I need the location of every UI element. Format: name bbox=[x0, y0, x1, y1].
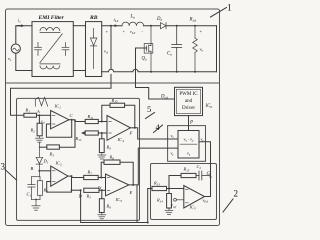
svg-text:Lb: Lb bbox=[130, 15, 136, 20]
svg-text:EMI Filter: EMI Filter bbox=[38, 15, 65, 21]
svg-text:R10: R10 bbox=[111, 98, 118, 104]
svg-text:PWM IC: PWM IC bbox=[179, 92, 198, 97]
svg-text:+: + bbox=[200, 29, 203, 34]
node C bbox=[71, 119, 73, 121]
wire C to R11 bbox=[69, 120, 85, 122]
EMI diagonal bbox=[40, 34, 63, 63]
inductor Lb bbox=[122, 22, 144, 26]
node F bbox=[134, 127, 136, 129]
svg-text:3: 3 bbox=[1, 162, 6, 172]
multiplier input wire vz bbox=[129, 148, 178, 185]
svg-text:IC6: IC6 bbox=[205, 104, 213, 109]
wire RB out / node vd bbox=[102, 25, 122, 27]
wire Db to output bbox=[166, 25, 217, 27]
callout 2 bbox=[223, 199, 233, 212]
wire IC2 out to R7 bbox=[68, 176, 84, 177]
multiplier output wire vy bbox=[199, 142, 211, 177]
svg-text:+: + bbox=[106, 29, 109, 34]
svg-text:G: G bbox=[207, 172, 211, 177]
svg-text:F: F bbox=[129, 131, 133, 136]
wire EMI to RB bottom bbox=[73, 70, 85, 72]
multiplier input wire vx bbox=[135, 128, 178, 139]
svg-text:R7: R7 bbox=[87, 170, 93, 176]
svg-text:1: 1 bbox=[227, 4, 232, 14]
svg-text:Db: Db bbox=[156, 17, 162, 22]
wire source bottom bbox=[16, 53, 32, 70]
node B bbox=[38, 170, 40, 172]
multiplier box bbox=[168, 126, 206, 162]
error amp IC5 bbox=[184, 186, 205, 209]
bottom rail bbox=[102, 69, 217, 72]
capacitor C1 parallel resistor R4 bbox=[28, 171, 43, 210]
svg-text:D1: D1 bbox=[43, 159, 49, 165]
resistor R10 feedback bbox=[102, 105, 110, 121]
resistor R14 bbox=[165, 189, 173, 215]
svg-text:R2: R2 bbox=[30, 128, 36, 134]
op-amp IC1 bbox=[51, 111, 69, 129]
diode D1 bbox=[36, 147, 42, 171]
box 2 error amp border bbox=[151, 164, 217, 220]
resistor R6 bbox=[98, 190, 106, 219]
resistor R2 bbox=[38, 115, 40, 123]
Vref terminal bbox=[174, 198, 177, 201]
wire Lb to Db bbox=[144, 25, 160, 27]
svg-text:Driver: Driver bbox=[182, 106, 195, 111]
wire EMI to RB top bbox=[73, 25, 85, 27]
svg-text:2: 2 bbox=[234, 189, 239, 199]
op-amp IC3 bbox=[106, 174, 129, 196]
svg-text:R15: R15 bbox=[183, 167, 190, 173]
RB diode bbox=[90, 29, 96, 69]
svg-text:R6: R6 bbox=[106, 204, 112, 210]
outer system box 1 bbox=[6, 9, 220, 226]
output right rail bbox=[216, 26, 218, 72]
op-amp IC4 bbox=[107, 116, 130, 141]
svg-text:R9: R9 bbox=[106, 145, 112, 151]
callout 3 bbox=[5, 170, 17, 181]
wire source top bbox=[16, 26, 32, 44]
svg-text:R8: R8 bbox=[109, 155, 115, 161]
svg-text:R12: R12 bbox=[75, 136, 82, 142]
svg-text:RB: RB bbox=[89, 15, 98, 21]
svg-text:A: A bbox=[36, 109, 40, 114]
EMI top inductor bbox=[40, 27, 60, 30]
ground below R2 bbox=[35, 136, 43, 147]
svg-text:P: P bbox=[189, 121, 193, 126]
current arrow i_Lb bbox=[115, 24, 118, 27]
EMI filter box bbox=[32, 22, 73, 77]
callout 5 bbox=[146, 113, 155, 119]
transistor Qb bbox=[144, 26, 153, 72]
node A bbox=[38, 114, 40, 116]
resistor R_Ld load zigzag bbox=[193, 26, 198, 72]
resistor R3 bbox=[47, 145, 60, 149]
power stage bottom border bbox=[6, 82, 220, 84]
svg-text:E: E bbox=[129, 190, 133, 195]
EMI left capacitor bbox=[35, 43, 42, 56]
EMI right capacitor bbox=[62, 43, 69, 56]
IC2 feedback wire bbox=[47, 176, 72, 192]
P wire bbox=[188, 116, 190, 131]
svg-text:R14: R14 bbox=[156, 198, 163, 204]
svg-text:Co: Co bbox=[167, 52, 172, 57]
gate wire Dr,b bbox=[136, 48, 175, 99]
node G bbox=[210, 176, 212, 178]
vd sense wire bbox=[110, 26, 112, 69]
rectifier RB box bbox=[86, 22, 102, 77]
compensation R15 bbox=[169, 176, 181, 189]
resistor R5 bbox=[84, 188, 99, 192]
callout 1 bbox=[211, 8, 227, 18]
svg-text:vLb: vLb bbox=[130, 29, 136, 35]
EMI bottom inductor bbox=[40, 66, 60, 69]
capacitor Co bbox=[172, 26, 182, 72]
resistor R7 bbox=[84, 175, 99, 179]
svg-text:RLd: RLd bbox=[189, 18, 197, 23]
svg-text:C1: C1 bbox=[27, 192, 32, 198]
sawtooth icon bbox=[35, 97, 47, 106]
svg-text:R4: R4 bbox=[43, 188, 49, 194]
op-amp IC2 bbox=[51, 166, 68, 186]
svg-text:C2: C2 bbox=[197, 164, 202, 170]
svg-text:B: B bbox=[31, 166, 34, 171]
svg-text:R5: R5 bbox=[86, 194, 92, 200]
PWM IC and driver box IC6 bbox=[175, 87, 203, 115]
resistor R11 bbox=[85, 119, 98, 123]
resistor R13 bbox=[152, 186, 167, 190]
IC1 feedback wire bbox=[46, 120, 71, 138]
error amp output wire bbox=[205, 176, 211, 197]
node D wire bbox=[72, 189, 81, 191]
callout 4 bbox=[154, 125, 163, 133]
ac source Vs bbox=[11, 44, 20, 53]
svg-text:and: and bbox=[185, 99, 193, 104]
box 3 control border bbox=[17, 98, 140, 220]
svg-text:Qb: Qb bbox=[142, 57, 147, 62]
wire D down to bottom bbox=[81, 189, 152, 223]
wire B to IC2 bbox=[39, 170, 50, 172]
svg-text:R11: R11 bbox=[87, 114, 94, 120]
resistor R12 with arrow bbox=[81, 131, 85, 135]
resistor R1 bbox=[24, 113, 37, 117]
svg-text:vx · vy: vx · vy bbox=[183, 137, 194, 143]
svg-text:5: 5 bbox=[147, 104, 151, 114]
svg-text:R3: R3 bbox=[49, 152, 55, 158]
node E wire bbox=[136, 185, 138, 223]
resistor R9 bbox=[98, 133, 106, 159]
diode Db bbox=[161, 23, 167, 29]
capacitor C2 bbox=[196, 171, 211, 180]
svg-text:R13: R13 bbox=[153, 181, 160, 187]
current arrow i_s bbox=[18, 25, 22, 27]
svg-text:vEA: vEA bbox=[203, 198, 209, 204]
svg-text:R1: R1 bbox=[25, 108, 31, 114]
resistor R8 feedback bbox=[101, 162, 104, 177]
